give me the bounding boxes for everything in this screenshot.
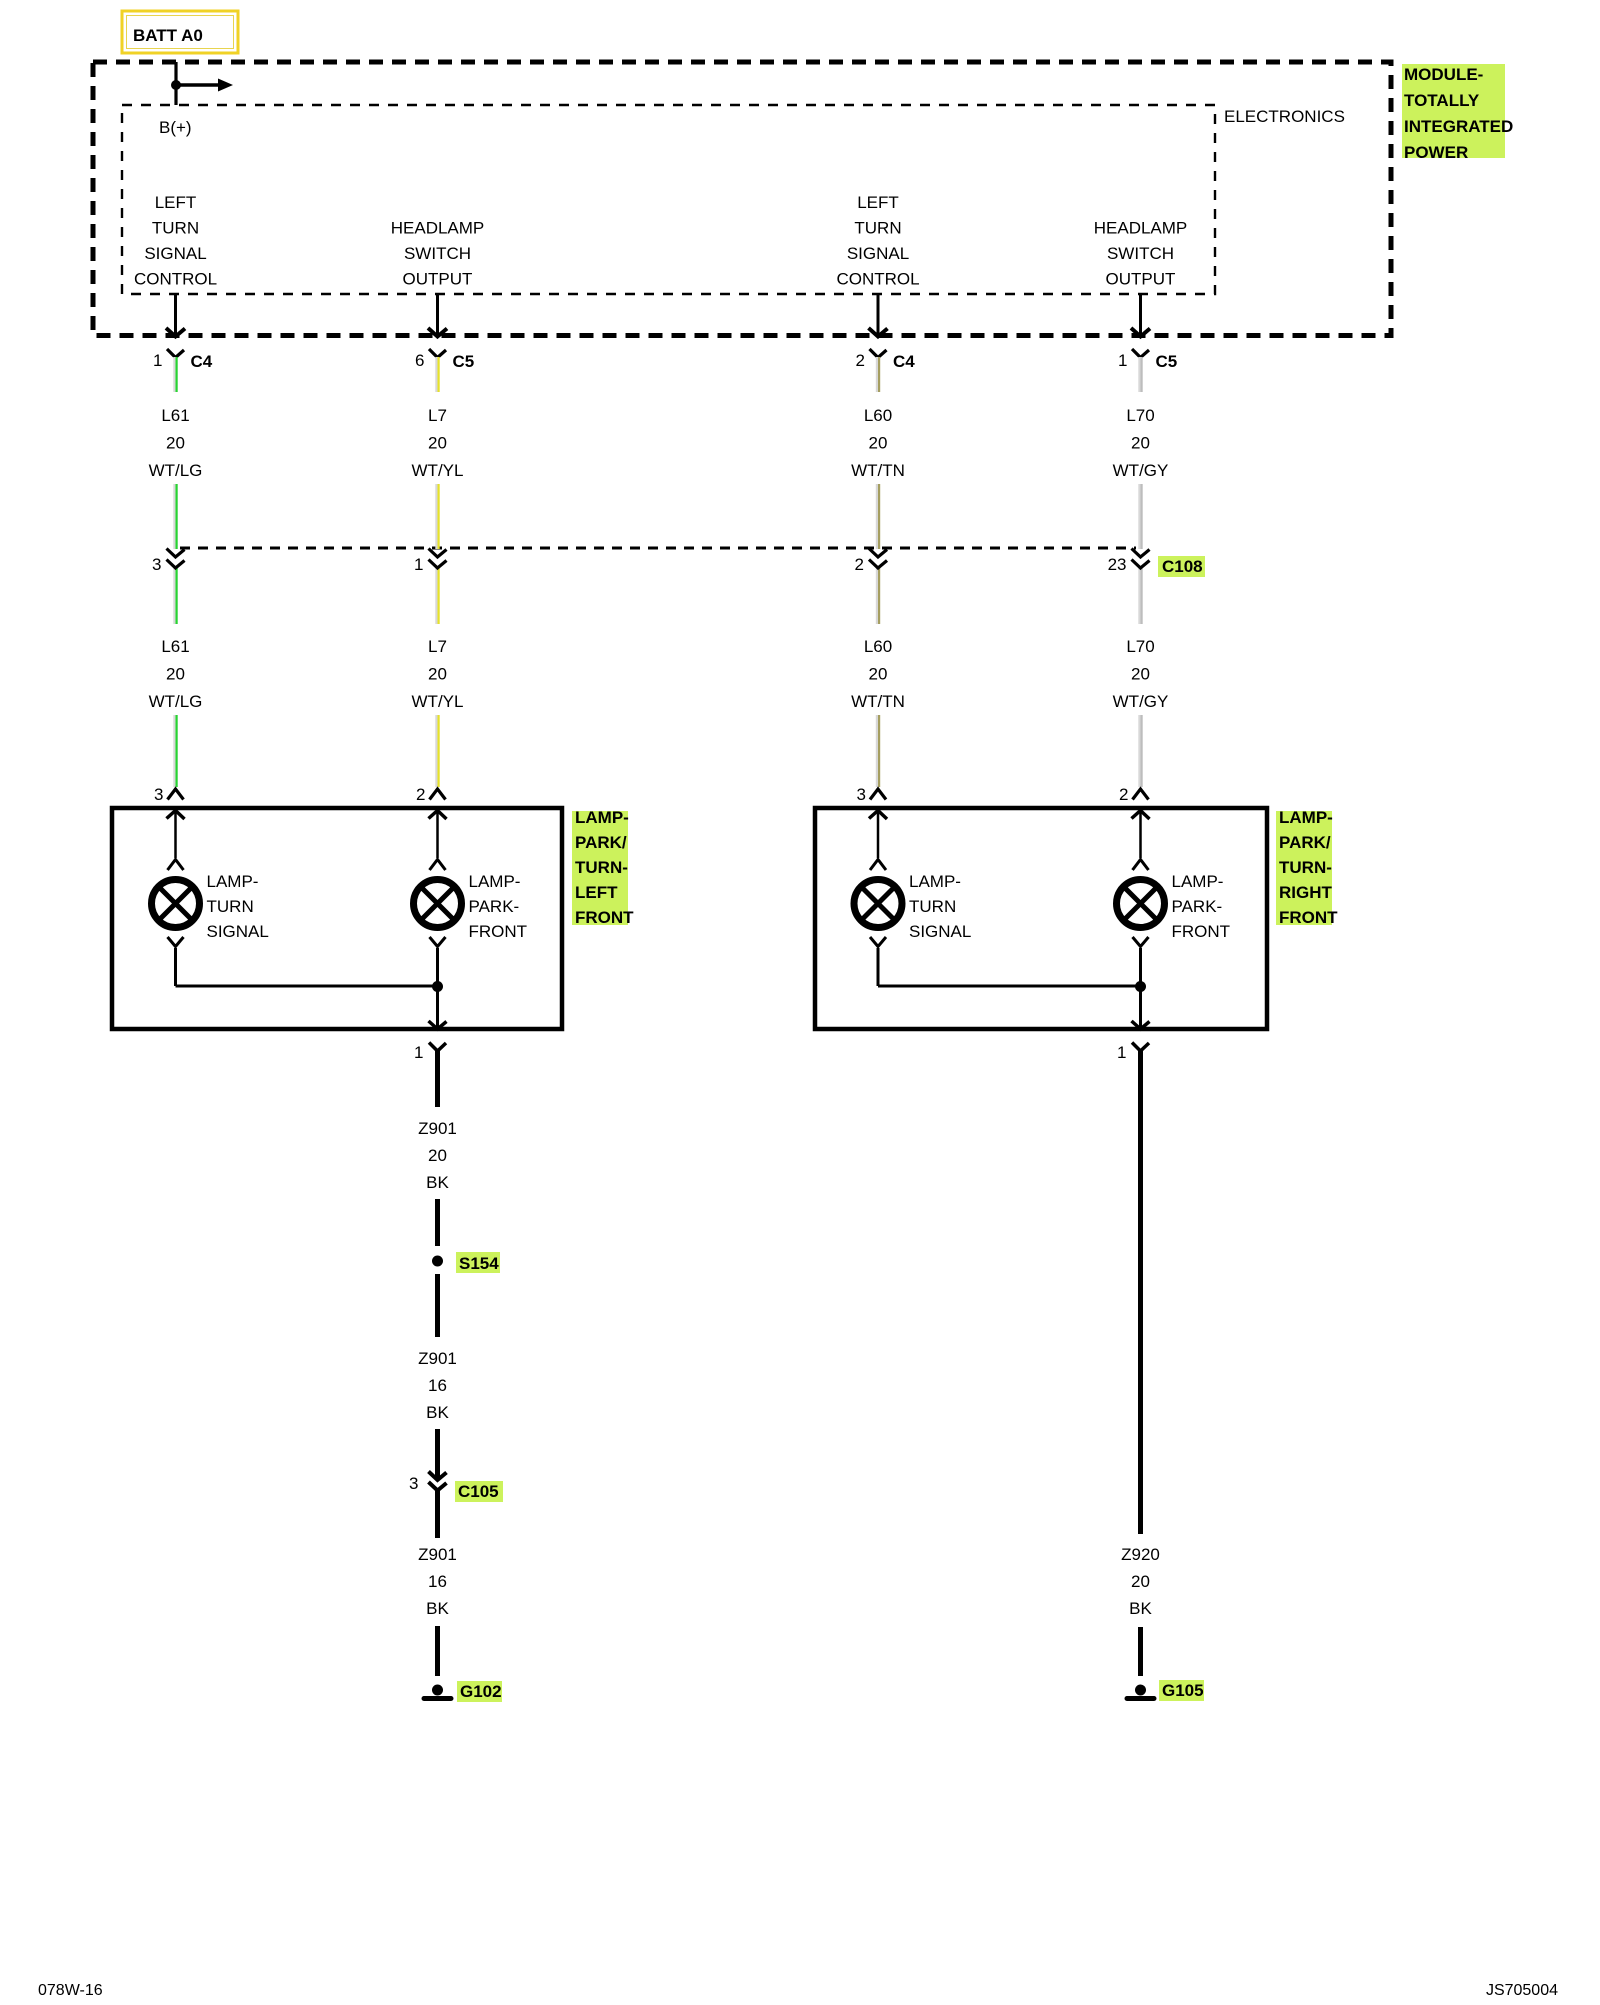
- svg-text:PARK/: PARK/: [575, 833, 627, 852]
- svg-text:2: 2: [855, 555, 864, 574]
- svg-text:SWITCH: SWITCH: [404, 244, 471, 263]
- svg-text:LEFT: LEFT: [155, 193, 197, 212]
- svg-text:RIGHT: RIGHT: [1279, 883, 1333, 902]
- svg-text:SIGNAL: SIGNAL: [207, 922, 269, 941]
- svg-text:2: 2: [856, 351, 865, 370]
- svg-text:16: 16: [428, 1376, 447, 1395]
- svg-text:L60: L60: [864, 406, 892, 425]
- svg-text:S154: S154: [459, 1254, 499, 1273]
- svg-text:TURN: TURN: [207, 897, 254, 916]
- svg-text:1: 1: [153, 351, 162, 370]
- svg-text:16: 16: [428, 1572, 447, 1591]
- svg-text:WT/TN: WT/TN: [851, 692, 905, 711]
- svg-text:CONTROL: CONTROL: [134, 270, 217, 289]
- svg-text:WT/LG: WT/LG: [149, 461, 203, 480]
- svg-text:LAMP-: LAMP-: [1172, 872, 1224, 891]
- svg-text:3: 3: [154, 785, 163, 804]
- svg-text:20: 20: [1131, 665, 1150, 684]
- svg-text:1: 1: [414, 555, 423, 574]
- svg-text:SIGNAL: SIGNAL: [909, 922, 971, 941]
- svg-text:20: 20: [869, 434, 888, 453]
- svg-text:L61: L61: [161, 406, 189, 425]
- svg-text:TURN: TURN: [152, 219, 199, 238]
- svg-text:HEADLAMP: HEADLAMP: [1094, 219, 1188, 238]
- svg-text:Z901: Z901: [418, 1119, 457, 1138]
- svg-text:FRONT: FRONT: [575, 908, 634, 927]
- svg-text:OUTPUT: OUTPUT: [1106, 270, 1176, 289]
- svg-text:TURN: TURN: [854, 219, 901, 238]
- svg-text:TURN-: TURN-: [575, 858, 628, 877]
- svg-text:20: 20: [1131, 434, 1150, 453]
- svg-text:POWER: POWER: [1404, 143, 1468, 162]
- svg-text:C5: C5: [453, 352, 475, 371]
- svg-text:TOTALLY: TOTALLY: [1404, 91, 1480, 110]
- svg-text:LAMP-: LAMP-: [575, 808, 629, 827]
- svg-text:OUTPUT: OUTPUT: [403, 270, 473, 289]
- svg-text:FRONT: FRONT: [1172, 922, 1231, 941]
- svg-text:L7: L7: [428, 406, 447, 425]
- svg-text:2: 2: [1119, 785, 1128, 804]
- svg-text:ELECTRONICS: ELECTRONICS: [1224, 107, 1345, 126]
- svg-text:JS705004: JS705004: [1486, 1982, 1558, 1999]
- svg-text:20: 20: [1131, 1572, 1150, 1591]
- svg-text:INTEGRATED: INTEGRATED: [1404, 117, 1513, 136]
- svg-text:MODULE-: MODULE-: [1404, 65, 1483, 84]
- svg-text:L61: L61: [161, 637, 189, 656]
- svg-text:HEADLAMP: HEADLAMP: [391, 219, 485, 238]
- svg-text:LEFT: LEFT: [857, 193, 899, 212]
- svg-text:BK: BK: [426, 1403, 449, 1422]
- svg-text:CONTROL: CONTROL: [836, 270, 919, 289]
- svg-text:2: 2: [416, 785, 425, 804]
- svg-text:G105: G105: [1162, 1681, 1204, 1700]
- svg-text:3: 3: [152, 555, 161, 574]
- svg-text:SIGNAL: SIGNAL: [847, 244, 909, 263]
- svg-text:3: 3: [857, 785, 866, 804]
- svg-text:6: 6: [415, 351, 424, 370]
- svg-text:20: 20: [428, 665, 447, 684]
- svg-text:PARK-: PARK-: [1172, 897, 1223, 916]
- svg-text:Z920: Z920: [1121, 1545, 1160, 1564]
- svg-text:1: 1: [1117, 1043, 1126, 1062]
- svg-text:L60: L60: [864, 637, 892, 656]
- svg-text:WT/LG: WT/LG: [149, 692, 203, 711]
- svg-text:TURN-: TURN-: [1279, 858, 1332, 877]
- svg-text:LAMP-: LAMP-: [469, 872, 521, 891]
- svg-text:WT/YL: WT/YL: [412, 692, 464, 711]
- svg-text:WT/YL: WT/YL: [412, 461, 464, 480]
- svg-text:LAMP-: LAMP-: [909, 872, 961, 891]
- svg-text:BK: BK: [426, 1173, 449, 1192]
- svg-text:FRONT: FRONT: [1279, 908, 1338, 927]
- svg-text:20: 20: [869, 665, 888, 684]
- svg-text:1: 1: [414, 1043, 423, 1062]
- svg-text:WT/TN: WT/TN: [851, 461, 905, 480]
- svg-text:B(+): B(+): [159, 118, 192, 137]
- svg-text:20: 20: [166, 434, 185, 453]
- svg-text:PARK/: PARK/: [1279, 833, 1331, 852]
- svg-text:Z901: Z901: [418, 1545, 457, 1564]
- svg-text:LEFT: LEFT: [575, 883, 618, 902]
- svg-text:PARK-: PARK-: [469, 897, 520, 916]
- svg-text:FRONT: FRONT: [469, 922, 528, 941]
- svg-text:SIGNAL: SIGNAL: [144, 244, 206, 263]
- svg-text:BK: BK: [1129, 1599, 1152, 1618]
- svg-text:C4: C4: [191, 352, 213, 371]
- svg-text:TURN: TURN: [909, 897, 956, 916]
- svg-text:L70: L70: [1126, 406, 1154, 425]
- svg-text:Z901: Z901: [418, 1349, 457, 1368]
- svg-text:G102: G102: [460, 1682, 502, 1701]
- svg-text:LAMP-: LAMP-: [207, 872, 259, 891]
- svg-text:WT/GY: WT/GY: [1113, 461, 1169, 480]
- svg-text:L7: L7: [428, 637, 447, 656]
- svg-text:BK: BK: [426, 1599, 449, 1618]
- svg-text:20: 20: [428, 1146, 447, 1165]
- svg-text:1: 1: [1118, 351, 1127, 370]
- svg-text:3: 3: [409, 1474, 418, 1493]
- svg-text:BATT A0: BATT A0: [133, 26, 203, 45]
- svg-text:20: 20: [166, 665, 185, 684]
- svg-text:SWITCH: SWITCH: [1107, 244, 1174, 263]
- svg-text:C4: C4: [893, 352, 915, 371]
- svg-text:WT/GY: WT/GY: [1113, 692, 1169, 711]
- svg-text:L70: L70: [1126, 637, 1154, 656]
- svg-text:C5: C5: [1156, 352, 1178, 371]
- svg-text:23: 23: [1108, 555, 1127, 574]
- svg-text:C108: C108: [1162, 557, 1203, 576]
- svg-text:078W-16: 078W-16: [38, 1982, 103, 1999]
- svg-text:C105: C105: [458, 1482, 499, 1501]
- svg-text:LAMP-: LAMP-: [1279, 808, 1333, 827]
- svg-text:20: 20: [428, 434, 447, 453]
